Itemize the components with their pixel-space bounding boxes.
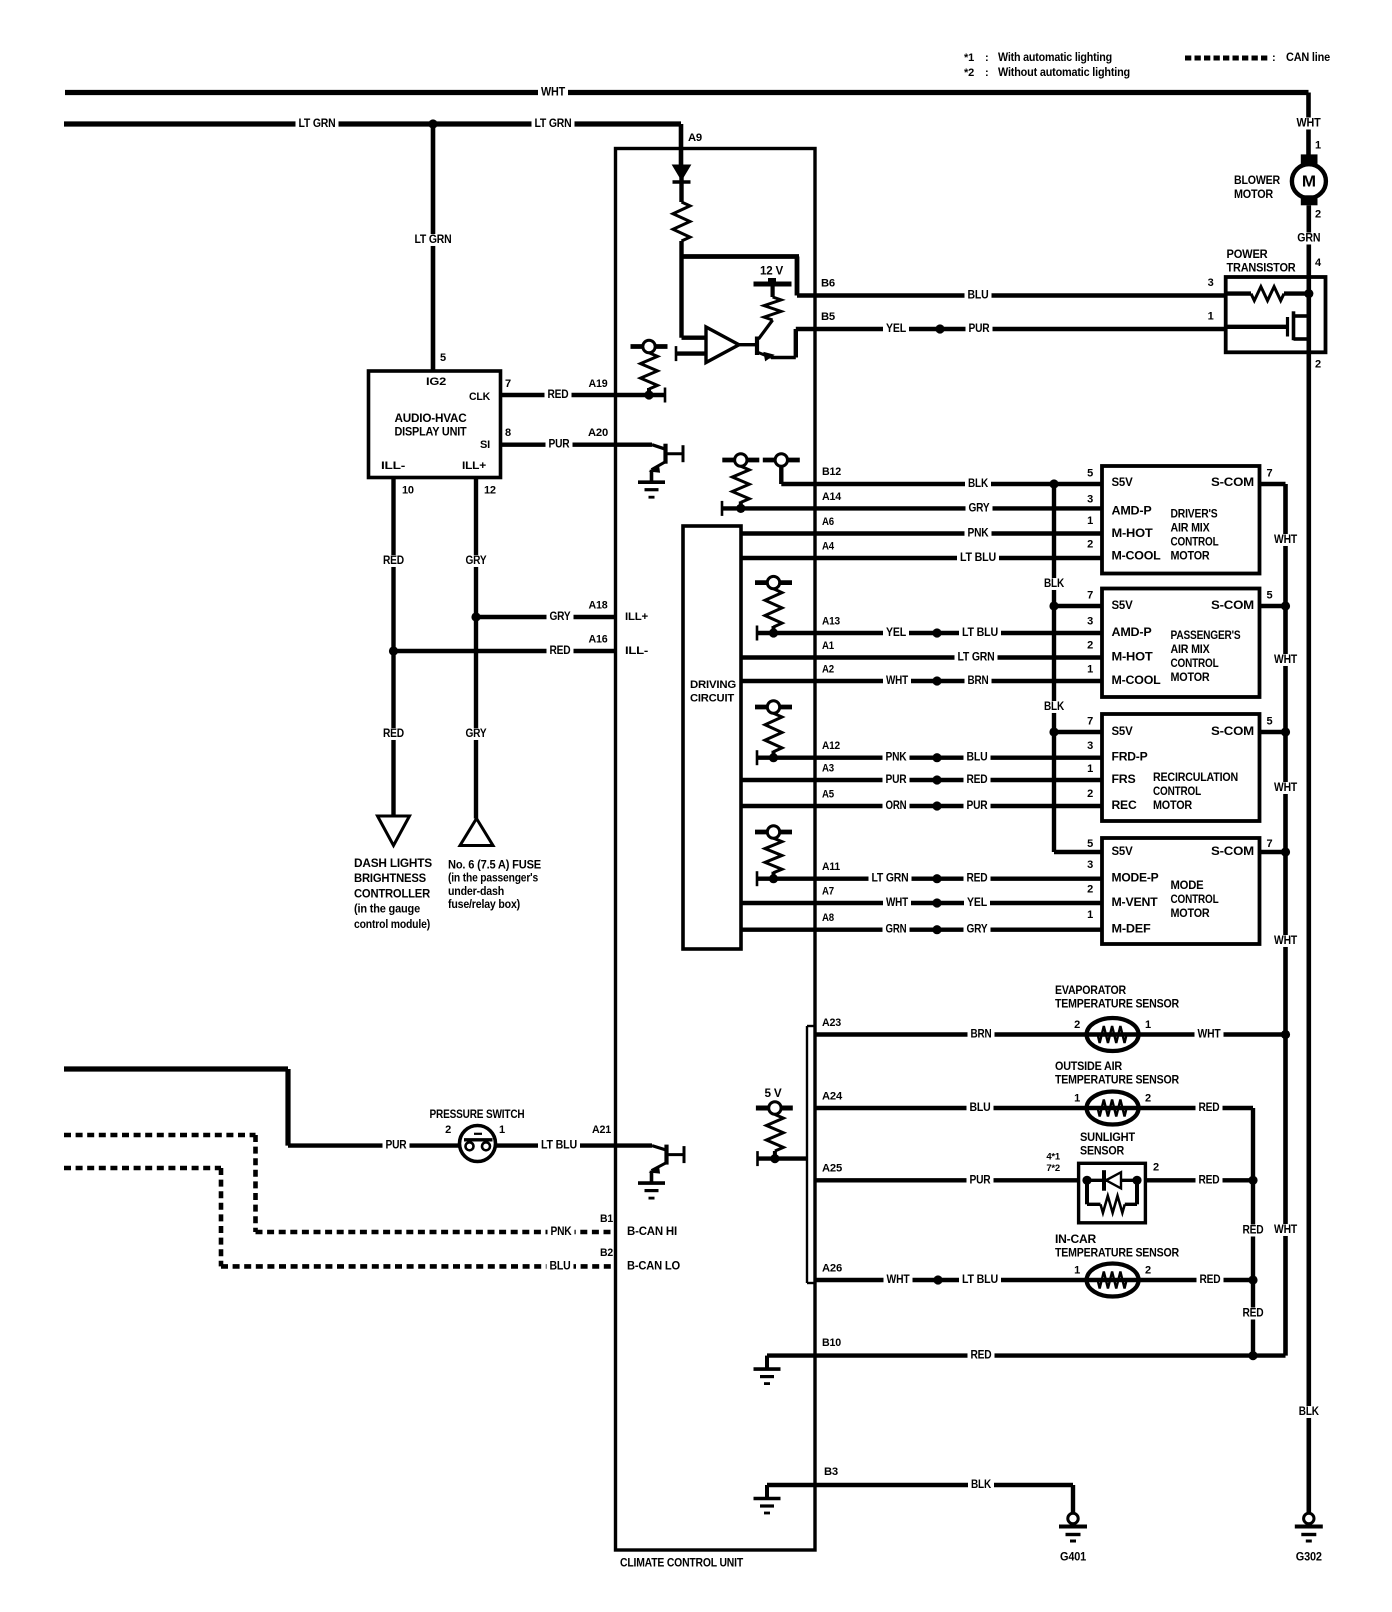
svg-text:A13: A13 bbox=[822, 616, 840, 628]
svg-text:FRS: FRS bbox=[1112, 774, 1137, 786]
svg-text:AIR MIX: AIR MIX bbox=[1171, 644, 1210, 656]
svg-text:BLU: BLU bbox=[968, 290, 989, 302]
svg-text:2: 2 bbox=[1145, 1093, 1151, 1105]
svg-text:M-COOL: M-COOL bbox=[1112, 551, 1161, 563]
svg-text:MOTOR: MOTOR bbox=[1171, 908, 1211, 920]
svg-text:2: 2 bbox=[1087, 788, 1093, 800]
svg-text:RED: RED bbox=[971, 1350, 992, 1362]
svg-text:3: 3 bbox=[1208, 277, 1214, 289]
svg-text:MODE-P: MODE-P bbox=[1112, 873, 1160, 885]
svg-text:B3: B3 bbox=[824, 1466, 838, 1478]
svg-text:12 V: 12 V bbox=[760, 266, 784, 278]
svg-text:TEMPERATURE SENSOR: TEMPERATURE SENSOR bbox=[1055, 999, 1180, 1011]
svg-text:DISPLAY UNIT: DISPLAY UNIT bbox=[395, 427, 467, 439]
svg-text:AMD-P: AMD-P bbox=[1112, 506, 1153, 518]
svg-text:4*1: 4*1 bbox=[1046, 1152, 1061, 1163]
svg-text:5 V: 5 V bbox=[765, 1088, 783, 1100]
svg-text:BLK: BLK bbox=[1044, 701, 1065, 713]
svg-text:M-DEF: M-DEF bbox=[1112, 924, 1151, 936]
svg-text:CONTROLLER: CONTROLLER bbox=[354, 886, 430, 900]
svg-text:BRN: BRN bbox=[968, 675, 989, 687]
svg-text:AUDIO-HVAC: AUDIO-HVAC bbox=[395, 413, 467, 425]
svg-text:RED: RED bbox=[1199, 1102, 1220, 1114]
svg-text:M-VENT: M-VENT bbox=[1112, 897, 1158, 909]
svg-text:YEL: YEL bbox=[886, 323, 906, 335]
svg-text:YEL: YEL bbox=[886, 627, 906, 639]
svg-text:ILL-: ILL- bbox=[381, 460, 406, 472]
svg-text:OUTSIDE AIR: OUTSIDE AIR bbox=[1055, 1061, 1123, 1073]
svg-text:1: 1 bbox=[1074, 1093, 1080, 1105]
svg-text:B1: B1 bbox=[600, 1213, 613, 1225]
svg-text:LT GRN: LT GRN bbox=[299, 118, 336, 130]
svg-text:WHT: WHT bbox=[1274, 654, 1297, 666]
svg-text:WHT: WHT bbox=[1274, 534, 1297, 546]
svg-text:LT GRN: LT GRN bbox=[958, 652, 995, 664]
svg-text:7: 7 bbox=[1267, 838, 1273, 850]
svg-text:BLU: BLU bbox=[550, 1260, 571, 1272]
svg-text:S5V: S5V bbox=[1112, 600, 1134, 612]
svg-text:G401: G401 bbox=[1060, 1552, 1087, 1564]
svg-text:GRY: GRY bbox=[466, 728, 487, 740]
svg-text:PUR: PUR bbox=[967, 800, 989, 812]
svg-text:LT GRN: LT GRN bbox=[872, 873, 909, 885]
svg-text:LT BLU: LT BLU bbox=[962, 1274, 998, 1286]
svg-text:CAN line: CAN line bbox=[1286, 52, 1330, 64]
svg-text:TRANSISTOR: TRANSISTOR bbox=[1227, 263, 1297, 275]
svg-text:REC: REC bbox=[1112, 800, 1137, 812]
svg-text:2: 2 bbox=[1315, 209, 1321, 221]
svg-text:DASH LIGHTS: DASH LIGHTS bbox=[354, 856, 432, 870]
svg-text:S-COM: S-COM bbox=[1211, 846, 1254, 858]
svg-text:RED: RED bbox=[967, 774, 988, 786]
svg-text:CIRCUIT: CIRCUIT bbox=[690, 693, 734, 705]
svg-text:BRIGHTNESS: BRIGHTNESS bbox=[354, 871, 426, 885]
svg-text:MOTOR: MOTOR bbox=[1171, 551, 1211, 563]
svg-text:S-COM: S-COM bbox=[1211, 726, 1254, 738]
svg-text:WHT: WHT bbox=[886, 897, 908, 909]
svg-text:8: 8 bbox=[505, 427, 511, 439]
svg-text:A2: A2 bbox=[822, 664, 834, 676]
svg-text:FRD-P: FRD-P bbox=[1112, 752, 1149, 764]
svg-text:A21: A21 bbox=[592, 1124, 611, 1136]
svg-text:5: 5 bbox=[1267, 590, 1273, 602]
svg-text:(in the gauge: (in the gauge bbox=[354, 902, 420, 916]
svg-text:BLK: BLK bbox=[1299, 1406, 1320, 1418]
svg-text:1: 1 bbox=[1087, 909, 1093, 921]
svg-text:IG2: IG2 bbox=[426, 376, 446, 388]
svg-text:A11: A11 bbox=[822, 861, 840, 873]
svg-text:A25: A25 bbox=[822, 1163, 842, 1175]
svg-text:1: 1 bbox=[1074, 1265, 1080, 1277]
svg-text:1: 1 bbox=[499, 1124, 505, 1136]
svg-text:A24: A24 bbox=[822, 1091, 843, 1103]
svg-text:*1: *1 bbox=[964, 52, 974, 64]
svg-text:2: 2 bbox=[1153, 1162, 1159, 1174]
svg-text:5: 5 bbox=[1267, 716, 1273, 728]
svg-text:10: 10 bbox=[402, 485, 414, 497]
svg-text:M-HOT: M-HOT bbox=[1112, 652, 1153, 664]
svg-text:12: 12 bbox=[484, 485, 496, 497]
svg-text:under-dash: under-dash bbox=[448, 884, 504, 898]
svg-text:GRY: GRY bbox=[969, 502, 990, 514]
svg-text:PNK: PNK bbox=[551, 1226, 573, 1238]
svg-text:MOTOR: MOTOR bbox=[1171, 672, 1211, 684]
svg-text:PUR: PUR bbox=[886, 774, 908, 786]
svg-text:(in the passenger's: (in the passenger's bbox=[448, 871, 539, 885]
svg-text:WHT: WHT bbox=[1297, 118, 1321, 130]
svg-text:S5V: S5V bbox=[1112, 726, 1134, 738]
svg-text:fuse/relay box): fuse/relay box) bbox=[448, 897, 520, 911]
svg-text:3: 3 bbox=[1087, 740, 1093, 752]
svg-text:RED: RED bbox=[383, 728, 404, 740]
svg-text:M-COOL: M-COOL bbox=[1112, 675, 1161, 687]
svg-text:RED: RED bbox=[1199, 1174, 1220, 1186]
svg-text:PUR: PUR bbox=[970, 1174, 992, 1186]
svg-text:No. 6 (7.5 A) FUSE: No. 6 (7.5 A) FUSE bbox=[448, 858, 541, 872]
svg-text:CONTROL: CONTROL bbox=[1153, 786, 1201, 798]
svg-text:SUNLIGHT: SUNLIGHT bbox=[1080, 1132, 1135, 1144]
svg-text:PUR: PUR bbox=[386, 1140, 408, 1152]
svg-text:control module): control module) bbox=[354, 917, 430, 931]
svg-text:TEMPERATURE SENSOR: TEMPERATURE SENSOR bbox=[1055, 1248, 1180, 1260]
svg-text:PASSENGER'S: PASSENGER'S bbox=[1171, 630, 1241, 642]
svg-text:A23: A23 bbox=[822, 1017, 841, 1029]
svg-text:ORN: ORN bbox=[886, 800, 907, 812]
svg-text:BRN: BRN bbox=[971, 1029, 992, 1041]
svg-text:LT BLU: LT BLU bbox=[541, 1140, 577, 1152]
svg-text:A16: A16 bbox=[589, 634, 608, 646]
svg-text:PNK: PNK bbox=[886, 752, 908, 764]
svg-text:S-COM: S-COM bbox=[1211, 477, 1254, 489]
svg-text:RED: RED bbox=[548, 389, 569, 401]
svg-text:RED: RED bbox=[550, 645, 571, 657]
svg-text:POWER: POWER bbox=[1227, 249, 1269, 261]
svg-text:7: 7 bbox=[505, 378, 511, 390]
svg-text:EVAPORATOR: EVAPORATOR bbox=[1055, 985, 1127, 997]
svg-text:A26: A26 bbox=[822, 1263, 842, 1275]
svg-text:RED: RED bbox=[1200, 1274, 1221, 1286]
svg-text:S-COM: S-COM bbox=[1211, 600, 1254, 612]
svg-text:LT GRN: LT GRN bbox=[535, 118, 572, 130]
svg-text:A3: A3 bbox=[822, 763, 834, 775]
svg-text:CLIMATE CONTROL UNIT: CLIMATE CONTROL UNIT bbox=[620, 1558, 743, 1570]
svg-text:BLU: BLU bbox=[967, 752, 988, 764]
svg-text:2: 2 bbox=[1087, 539, 1093, 551]
svg-text:RED: RED bbox=[1243, 1225, 1264, 1237]
svg-text:2: 2 bbox=[1074, 1019, 1080, 1031]
svg-text:LT GRN: LT GRN bbox=[415, 234, 452, 246]
svg-text:DRIVING: DRIVING bbox=[690, 679, 736, 691]
svg-text::: : bbox=[985, 67, 988, 79]
svg-text:B2: B2 bbox=[600, 1247, 613, 1259]
svg-text:RECIRCULATION: RECIRCULATION bbox=[1153, 772, 1238, 784]
svg-text:YEL: YEL bbox=[967, 897, 987, 909]
svg-text:ILL-: ILL- bbox=[625, 645, 649, 657]
svg-text:5: 5 bbox=[440, 352, 446, 364]
svg-text:CONTROL: CONTROL bbox=[1171, 537, 1219, 549]
svg-text:*2: *2 bbox=[964, 67, 974, 79]
svg-text:7: 7 bbox=[1087, 716, 1093, 728]
svg-text:RED: RED bbox=[967, 873, 988, 885]
svg-text:B6: B6 bbox=[821, 278, 835, 290]
svg-text:3: 3 bbox=[1087, 494, 1093, 506]
svg-text:7: 7 bbox=[1087, 590, 1093, 602]
svg-text:GRY: GRY bbox=[550, 611, 571, 623]
svg-text:LT BLU: LT BLU bbox=[960, 552, 996, 564]
svg-text:1: 1 bbox=[1087, 515, 1093, 527]
svg-text:BLOWER: BLOWER bbox=[1234, 175, 1281, 187]
svg-text:AMD-P: AMD-P bbox=[1112, 627, 1153, 639]
svg-text:A14: A14 bbox=[822, 491, 842, 503]
svg-text:RED: RED bbox=[383, 555, 404, 567]
svg-text:ILL+: ILL+ bbox=[462, 460, 486, 472]
svg-text:GRN: GRN bbox=[886, 924, 907, 936]
svg-text:S5V: S5V bbox=[1112, 846, 1134, 858]
svg-text:A6: A6 bbox=[822, 516, 834, 528]
svg-text:CONTROL: CONTROL bbox=[1171, 894, 1219, 906]
svg-text:WHT: WHT bbox=[1274, 1224, 1297, 1236]
svg-text:G302: G302 bbox=[1296, 1552, 1322, 1564]
svg-text:1: 1 bbox=[1087, 763, 1093, 775]
svg-text:B12: B12 bbox=[822, 466, 841, 478]
svg-text:MODE: MODE bbox=[1171, 880, 1205, 892]
svg-text:A20: A20 bbox=[588, 427, 608, 439]
svg-text::: : bbox=[1272, 52, 1275, 64]
svg-text:LT BLU: LT BLU bbox=[962, 627, 998, 639]
svg-text:WHT: WHT bbox=[887, 1274, 910, 1286]
svg-text:S5V: S5V bbox=[1112, 477, 1134, 489]
svg-text:A12: A12 bbox=[822, 740, 840, 752]
svg-text:SENSOR: SENSOR bbox=[1080, 1146, 1125, 1158]
svg-text:IN-CAR: IN-CAR bbox=[1055, 1234, 1097, 1246]
svg-text:2: 2 bbox=[1087, 884, 1093, 896]
svg-text:B-CAN HI: B-CAN HI bbox=[627, 1226, 677, 1238]
svg-text::: : bbox=[985, 52, 988, 64]
svg-text:A5: A5 bbox=[822, 789, 834, 801]
svg-text:B5: B5 bbox=[821, 311, 835, 323]
svg-text:ILL+: ILL+ bbox=[625, 611, 648, 623]
svg-text:WHT: WHT bbox=[1198, 1029, 1221, 1041]
svg-text:BLK: BLK bbox=[971, 1479, 992, 1491]
svg-text:PRESSURE SWITCH: PRESSURE SWITCH bbox=[430, 1109, 525, 1121]
svg-text:2: 2 bbox=[1315, 359, 1321, 371]
svg-text:3: 3 bbox=[1087, 616, 1093, 628]
svg-text:A1: A1 bbox=[822, 640, 834, 652]
svg-text:WHT: WHT bbox=[886, 675, 908, 687]
svg-text:BLU: BLU bbox=[970, 1102, 991, 1114]
svg-text:With automatic lighting: With automatic lighting bbox=[998, 52, 1112, 64]
svg-text:MOTOR: MOTOR bbox=[1153, 800, 1193, 812]
svg-text:3: 3 bbox=[1087, 859, 1093, 871]
svg-text:A9: A9 bbox=[688, 132, 702, 144]
svg-text:A4: A4 bbox=[822, 541, 835, 553]
svg-text:CONTROL: CONTROL bbox=[1171, 658, 1219, 670]
svg-text:GRN: GRN bbox=[1297, 233, 1320, 245]
svg-text:5: 5 bbox=[1087, 838, 1093, 850]
svg-text:MOTOR: MOTOR bbox=[1234, 189, 1274, 201]
svg-text:1: 1 bbox=[1087, 664, 1093, 676]
svg-text:2: 2 bbox=[445, 1124, 451, 1136]
svg-text:2: 2 bbox=[1087, 640, 1093, 652]
svg-text:2: 2 bbox=[1145, 1265, 1151, 1277]
svg-text:WHT: WHT bbox=[1274, 935, 1297, 947]
svg-text:1: 1 bbox=[1145, 1019, 1151, 1031]
svg-text:WHT: WHT bbox=[1274, 782, 1297, 794]
svg-text:A18: A18 bbox=[589, 600, 608, 612]
svg-text:AIR MIX: AIR MIX bbox=[1171, 523, 1210, 535]
svg-text:GRY: GRY bbox=[466, 555, 487, 567]
svg-text:SI: SI bbox=[480, 439, 490, 451]
svg-text:M: M bbox=[1302, 173, 1316, 190]
svg-text:1: 1 bbox=[1208, 311, 1214, 323]
svg-text:PNK: PNK bbox=[968, 528, 990, 540]
svg-text:A19: A19 bbox=[589, 378, 608, 390]
svg-text:M-HOT: M-HOT bbox=[1112, 528, 1153, 540]
svg-text:RED: RED bbox=[1243, 1308, 1264, 1320]
svg-text:7: 7 bbox=[1267, 468, 1273, 480]
svg-text:B10: B10 bbox=[822, 1337, 841, 1349]
svg-text:BLK: BLK bbox=[968, 478, 989, 490]
svg-text:5: 5 bbox=[1087, 468, 1093, 480]
svg-text:CLK: CLK bbox=[469, 391, 490, 403]
svg-text:A7: A7 bbox=[822, 886, 834, 898]
svg-text:A8: A8 bbox=[822, 912, 834, 924]
svg-text:1: 1 bbox=[1315, 140, 1321, 152]
svg-text:Without automatic lighting: Without automatic lighting bbox=[998, 67, 1130, 79]
svg-text:TEMPERATURE SENSOR: TEMPERATURE SENSOR bbox=[1055, 1075, 1180, 1087]
svg-text:PUR: PUR bbox=[969, 323, 991, 335]
svg-text:WHT: WHT bbox=[541, 87, 565, 99]
svg-text:DRIVER'S: DRIVER'S bbox=[1171, 509, 1218, 521]
svg-text:7*2: 7*2 bbox=[1046, 1163, 1060, 1174]
svg-text:PUR: PUR bbox=[549, 439, 571, 451]
svg-text:GRY: GRY bbox=[967, 924, 988, 936]
svg-text:BLK: BLK bbox=[1044, 578, 1065, 590]
svg-text:B-CAN LO: B-CAN LO bbox=[627, 1260, 680, 1272]
